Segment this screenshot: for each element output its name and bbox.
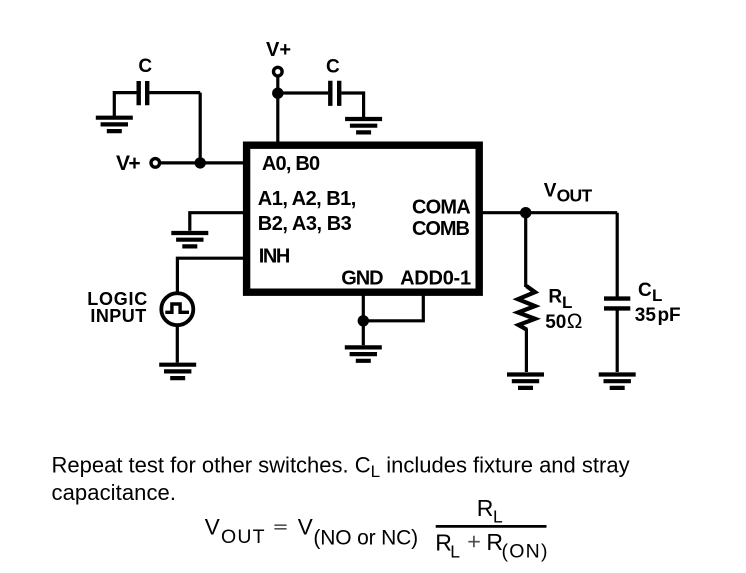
ground G7 <box>599 375 636 388</box>
wire C1 left lead to ground <box>114 93 136 117</box>
formula equals <box>274 525 286 529</box>
ground G5 <box>345 347 382 360</box>
wire V+ terminal to IC pin A0,B0 <box>160 161 246 164</box>
formula fraction bar <box>436 525 547 528</box>
svg-text:35pF: 35pF <box>635 305 681 326</box>
svg-text:OUT: OUT <box>557 185 593 205</box>
ground G3 <box>171 233 208 246</box>
svg-text:V: V <box>298 514 313 539</box>
svg-text:V: V <box>544 181 557 202</box>
svg-text:C: C <box>138 56 152 77</box>
svg-text:C: C <box>326 57 340 78</box>
junction dot output node <box>520 207 531 218</box>
terminal circle V+ left <box>151 159 160 168</box>
svg-text:(NO or NC): (NO or NC) <box>313 527 418 550</box>
wire pin A1-B3 to ground <box>190 213 246 231</box>
capacitor C1 plates <box>139 81 148 105</box>
svg-text:A1, A2, B1,: A1, A2, B1, <box>258 188 357 210</box>
svg-text:L: L <box>493 506 503 526</box>
wire output to capacitor CL <box>616 213 619 297</box>
svg-text:INH: INH <box>259 245 291 267</box>
wire resistor RL to ground <box>525 329 528 372</box>
ground G2 <box>345 119 382 132</box>
svg-text:GND: GND <box>341 267 383 289</box>
svg-text:Ω: Ω <box>567 310 583 333</box>
wire ADD0-1 pin down and left to GND node <box>366 293 423 321</box>
wire C1 right lead <box>149 91 200 94</box>
source V1 pulse waveform symbol <box>165 304 189 312</box>
svg-text:Repeat test for other switches: Repeat test for other switches. CL inclu… <box>52 452 630 481</box>
svg-text:L: L <box>450 541 460 561</box>
svg-text:R: R <box>548 287 562 308</box>
svg-text:R: R <box>477 495 494 521</box>
formula denominator plus <box>468 536 480 548</box>
svg-text:V+: V+ <box>116 152 141 175</box>
svg-text:capacitance.: capacitance. <box>52 480 177 505</box>
svg-text:B2, A3, B3: B2, A3, B3 <box>258 213 352 235</box>
source V1 pulse generator circle <box>161 293 193 325</box>
svg-text:COMB: COMB <box>412 218 470 240</box>
capacitor C2 plates <box>330 81 339 106</box>
junction dot node V+ <box>195 157 206 168</box>
op IC U1 body <box>247 145 480 292</box>
svg-text:COMA: COMA <box>412 196 471 218</box>
wire pulse source to ground <box>176 325 179 362</box>
svg-text:V+: V+ <box>266 39 291 61</box>
svg-text:INPUT: INPUT <box>90 306 146 326</box>
capacitor CL plates <box>604 299 630 309</box>
svg-text:L: L <box>652 286 662 305</box>
wire C1 down to V+ node <box>199 93 202 163</box>
svg-text:V: V <box>205 514 220 539</box>
svg-text:ADD0-1: ADD0-1 <box>400 267 471 289</box>
wire V+ top down into IC <box>276 76 279 144</box>
ground G1 <box>96 118 133 131</box>
svg-text:A0, B0: A0, B0 <box>262 153 320 175</box>
wire C2 right lead to ground <box>341 93 363 118</box>
svg-text:OUT: OUT <box>221 526 265 548</box>
svg-text:50: 50 <box>545 312 566 333</box>
svg-text:L: L <box>562 293 572 312</box>
wire COMA/COMB output <box>480 211 617 214</box>
resistor RL zigzag <box>518 286 535 330</box>
ground G6 <box>507 375 544 388</box>
junction dot top V+ node <box>272 88 283 99</box>
ground G4 <box>159 365 196 378</box>
wire pin INH to pulse source <box>177 258 246 293</box>
svg-text:C: C <box>638 280 652 301</box>
wire output node down to resistor RL <box>524 213 527 287</box>
terminal circle V+ top <box>274 67 283 76</box>
wire node to capacitor C2 <box>278 91 328 94</box>
junction dot GND node <box>358 315 369 326</box>
wire capacitor CL to ground <box>616 311 619 373</box>
wire GND pin down <box>362 293 365 345</box>
